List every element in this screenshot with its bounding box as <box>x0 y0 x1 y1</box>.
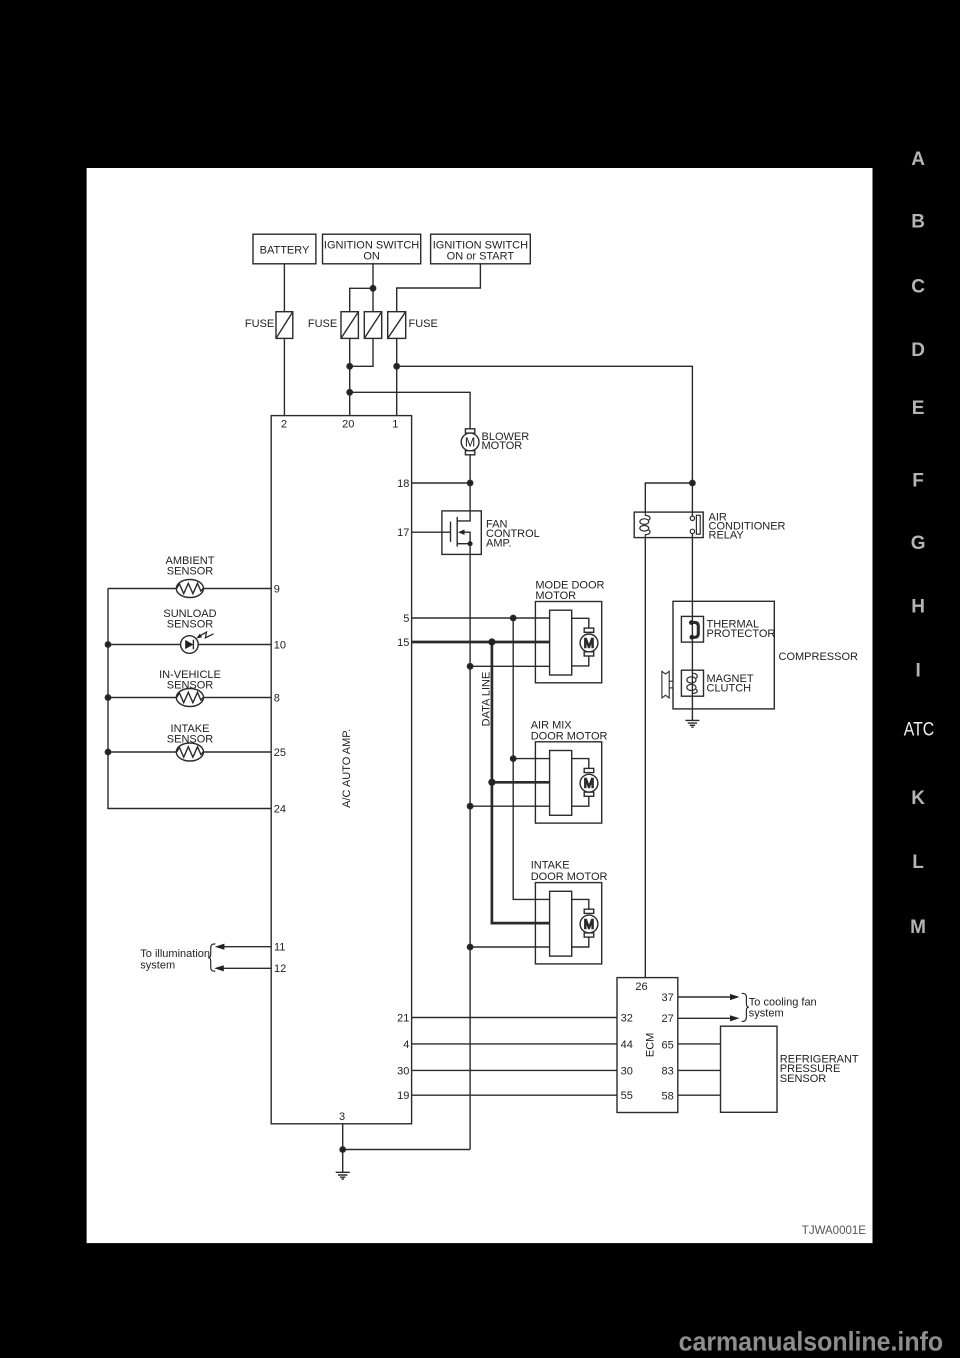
wire pin 30 to ECM 30 <box>412 1069 617 1071</box>
svg-text:RELAY: RELAY <box>709 529 745 541</box>
wire pin 11 to illumination <box>217 946 271 948</box>
wire pin 17 to gate <box>412 531 451 533</box>
wire ECM 65 to refrigerant sensor <box>678 1043 721 1045</box>
wire ECM 37 to cooling fan <box>678 996 732 998</box>
wire pin 12 to illumination <box>216 967 271 969</box>
intake door motor internal wiring <box>572 899 589 947</box>
svg-text:ON or START: ON or START <box>447 251 515 263</box>
motor M of intake door motor <box>584 909 594 913</box>
svg-text:9: 9 <box>274 583 280 595</box>
svg-text:FUSE: FUSE <box>245 318 274 330</box>
thermal protector box <box>681 616 703 642</box>
svg-text:11: 11 <box>274 942 285 954</box>
wire battery to fuse <box>283 264 285 312</box>
ground A/C auto amp <box>336 1172 350 1179</box>
svg-text:E: E <box>912 398 925 419</box>
motor M of mode door motor <box>584 628 594 632</box>
sensor feed bus <box>108 589 271 809</box>
mode door motor internal wiring <box>572 618 589 666</box>
in-vehicle sensor (thermistor) <box>176 689 203 707</box>
svg-text:SENSOR: SENSOR <box>780 1073 827 1085</box>
wire fuse A down to pin 20 <box>349 338 351 415</box>
ignition switch ON or START box <box>431 234 531 264</box>
svg-text:To illumination: To illumination <box>140 948 210 960</box>
junction node in-vehicle bus <box>105 695 110 700</box>
svg-text:19: 19 <box>397 1090 409 1102</box>
intake door motor connector rectangle <box>550 891 572 956</box>
svg-text:55: 55 <box>621 1090 633 1102</box>
compressor box <box>673 601 774 709</box>
ground compressor <box>685 720 699 727</box>
svg-text:system: system <box>140 959 175 971</box>
air conditioner relay box <box>634 512 703 538</box>
wire ECM 58 to refrigerant sensor <box>678 1094 721 1096</box>
svg-text:TJWA0001E: TJWA0001E <box>802 1225 866 1237</box>
wire fuse battery to pin 2 <box>283 338 285 415</box>
sub bus from pin5 line down <box>513 618 549 899</box>
svg-text:system: system <box>749 1008 784 1020</box>
svg-text:C: C <box>911 277 925 298</box>
ignition switch ON box <box>323 234 421 264</box>
wire fuse A to blower motor <box>350 392 470 429</box>
wire ground bus horizontal <box>343 1149 470 1151</box>
MOSFET channel bar <box>456 517 458 547</box>
wire air mix door motor data (thick) <box>492 781 550 784</box>
svg-text:18: 18 <box>397 478 409 490</box>
junction node fuse A+B <box>347 364 352 369</box>
wire air mix door motor lower <box>470 805 549 807</box>
svg-text:MOTOR: MOTOR <box>482 440 523 452</box>
junction node air mix upper <box>511 756 516 761</box>
svg-text:24: 24 <box>274 803 286 815</box>
junction node intake lower <box>467 944 472 949</box>
svg-text:AMP.: AMP. <box>486 537 511 549</box>
wire relay coil to ECM pin 26 <box>644 538 646 978</box>
white schematic sheet <box>87 168 873 1243</box>
junction node sunload bus <box>105 642 110 647</box>
wire fuse C down to pin 1 <box>396 338 398 415</box>
blower motor M1 <box>465 429 474 433</box>
wire ECM 83 to refrigerant sensor <box>678 1069 721 1071</box>
svg-text:DOOR MOTOR: DOOR MOTOR <box>531 730 608 742</box>
svg-text:F: F <box>912 470 924 491</box>
svg-text:SENSOR: SENSOR <box>167 566 214 578</box>
magnet clutch coil <box>693 673 698 678</box>
svg-text:83: 83 <box>662 1065 674 1077</box>
wire relay contact to compressor <box>691 538 693 721</box>
sunload sensor (photodiode) <box>181 636 199 654</box>
wire intake door motor lower <box>470 946 549 948</box>
ambient sensor (thermistor) <box>176 580 203 598</box>
svg-text:carmanualsonline.info: carmanualsonline.info <box>679 1326 944 1356</box>
svg-text:BATTERY: BATTERY <box>260 244 310 256</box>
junction node fuse C branch <box>394 364 399 369</box>
fan control amp box <box>442 511 481 555</box>
junction node ignition ON <box>370 286 375 291</box>
svg-text:FUSE: FUSE <box>308 318 337 330</box>
wire blower motor to fan control amp <box>457 455 470 521</box>
wire pin 21 to ECM 32 <box>412 1017 617 1019</box>
svg-text:SENSOR: SENSOR <box>167 734 214 746</box>
svg-text:G: G <box>911 533 926 554</box>
fuse A (ignition ON left) <box>341 312 358 339</box>
mode door motor connector rectangle <box>550 610 572 675</box>
data line vertical bus (thick) <box>492 642 550 923</box>
svg-text:SENSOR: SENSOR <box>167 619 214 631</box>
wire pin 19 to ECM 55 <box>412 1094 617 1096</box>
svg-text:30: 30 <box>397 1065 409 1077</box>
air mix door motor outer box <box>535 742 601 823</box>
svg-text:12: 12 <box>274 963 286 975</box>
junction node blower feed <box>347 390 352 395</box>
wire pin 3 to ground <box>342 1124 344 1173</box>
svg-text:M: M <box>584 777 594 791</box>
svg-text:A/C AUTO AMP.: A/C AUTO AMP. <box>341 729 353 808</box>
mode door motor outer box <box>535 602 601 683</box>
svg-text:FUSE: FUSE <box>409 318 438 330</box>
wire mode door motor lower <box>470 665 549 667</box>
air mix door motor internal wiring <box>572 759 589 807</box>
svg-text:25: 25 <box>274 747 286 759</box>
svg-text:DOOR MOTOR: DOOR MOTOR <box>531 871 608 883</box>
svg-text:32: 32 <box>621 1012 633 1024</box>
svg-text:10: 10 <box>274 639 286 651</box>
junction node air mix lower <box>467 804 472 809</box>
air mix door motor connector rectangle <box>550 751 572 816</box>
svg-text:1: 1 <box>392 418 398 430</box>
svg-text:D: D <box>911 340 925 361</box>
ECM box <box>617 978 678 1113</box>
thermal protector element <box>691 622 698 637</box>
wire intake sensor <box>108 751 176 753</box>
svg-text:ON: ON <box>363 251 380 263</box>
svg-text:M: M <box>910 917 926 938</box>
svg-text:A: A <box>911 149 925 170</box>
wire in-vehicle sensor <box>108 697 176 699</box>
svg-text:PROTECTOR: PROTECTOR <box>707 628 776 640</box>
relay contact <box>691 512 693 516</box>
MOSFET body arrow wire <box>464 532 470 544</box>
wire pin 5 to mode door motor <box>412 617 550 619</box>
svg-text:INTAKE: INTAKE <box>531 860 570 872</box>
svg-text:L: L <box>912 852 924 873</box>
wire fuse B joining fuse A <box>350 338 373 366</box>
motor M of air mix door motor <box>584 768 594 772</box>
brace illumination <box>208 944 215 971</box>
junction node data line <box>488 638 495 645</box>
svg-text:44: 44 <box>621 1039 633 1051</box>
wire fuse C to air conditioner relay <box>397 366 693 483</box>
svg-text:27: 27 <box>662 1013 674 1025</box>
svg-text:65: 65 <box>662 1040 674 1052</box>
svg-text:M: M <box>584 917 594 931</box>
svg-text:MOTOR: MOTOR <box>535 590 576 602</box>
svg-text:ECM: ECM <box>645 1033 657 1057</box>
svg-text:5: 5 <box>403 613 409 625</box>
wire node to relay coil <box>645 483 692 512</box>
wire node to relay contact <box>691 483 693 512</box>
wire ignition ON to fuses <box>372 264 374 312</box>
svg-text:COMPRESSOR: COMPRESSOR <box>779 651 859 663</box>
fuse battery <box>276 312 293 339</box>
relay coil <box>645 512 650 520</box>
fuse C (ignition ON or START) <box>388 312 406 339</box>
svg-text:37: 37 <box>662 992 674 1004</box>
sunload light arrow <box>200 632 213 638</box>
svg-text:26: 26 <box>635 981 647 993</box>
wire air mix door motor upper <box>513 758 549 760</box>
svg-text:H: H <box>911 597 925 618</box>
intake sensor (thermistor) <box>176 743 203 761</box>
refrigerant pressure sensor box <box>721 1026 778 1112</box>
wire ignition ON or START to fuse <box>397 264 481 312</box>
svg-text:M: M <box>584 636 594 650</box>
svg-text:M: M <box>465 435 475 449</box>
svg-text:15: 15 <box>397 637 409 649</box>
svg-text:4: 4 <box>403 1039 409 1051</box>
battery box <box>253 234 316 264</box>
wire pin 4 to ECM 44 <box>412 1043 617 1045</box>
svg-text:21: 21 <box>397 1012 409 1024</box>
svg-text:ATC: ATC <box>904 719 934 740</box>
MOSFET source wire <box>457 543 470 545</box>
clutch plates symbol <box>662 671 669 698</box>
svg-text:B: B <box>911 212 925 233</box>
junction node air mix data <box>488 779 495 786</box>
svg-text:SENSOR: SENSOR <box>167 679 214 691</box>
svg-text:K: K <box>911 788 925 809</box>
junction node sub bus pin5 <box>511 615 516 620</box>
wire sunload sensor <box>108 644 181 646</box>
MOSFET gate bar <box>450 522 452 542</box>
magnet clutch box <box>681 670 703 696</box>
svg-text:DATA LINE: DATA LINE <box>481 672 493 727</box>
junction node intake bus <box>105 749 110 754</box>
svg-text:2: 2 <box>281 418 287 430</box>
svg-text:To cooling fan: To cooling fan <box>749 996 817 1008</box>
junction node relay branch <box>690 480 695 485</box>
junction node mode lower <box>467 664 472 669</box>
svg-text:17: 17 <box>397 527 409 539</box>
svg-text:I: I <box>915 661 920 682</box>
svg-text:8: 8 <box>274 692 280 704</box>
svg-text:20: 20 <box>342 418 354 430</box>
svg-text:58: 58 <box>662 1091 674 1103</box>
svg-text:CLUTCH: CLUTCH <box>707 683 752 695</box>
A/C auto amplifier box <box>271 416 411 1124</box>
svg-text:3: 3 <box>339 1111 345 1123</box>
junction node pin18/blower <box>467 480 472 485</box>
brace cooling fan <box>742 993 749 1021</box>
junction node ground <box>340 1147 345 1152</box>
fuse B (ignition ON right) <box>364 312 381 339</box>
svg-text:30: 30 <box>621 1065 633 1077</box>
wire ECM 27 to cooling fan <box>678 1017 732 1019</box>
intake door motor outer box <box>535 883 601 964</box>
wire ambient sensor <box>108 588 176 590</box>
wire pin 15 data line (thick) <box>412 641 550 644</box>
wire fan control amp source down to ground bus <box>469 544 471 1150</box>
wire pin 18 <box>412 482 471 484</box>
